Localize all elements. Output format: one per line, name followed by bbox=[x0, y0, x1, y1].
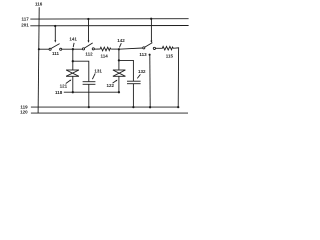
svg-text:114: 114 bbox=[100, 54, 108, 59]
wire split to surge absorber 122 bbox=[118, 60, 120, 70]
leader line 131 bbox=[92, 73, 95, 79]
net 118 line bbox=[64, 91, 119, 93]
svg-text:141: 141 bbox=[69, 36, 77, 41]
svg-text:120: 120 bbox=[20, 110, 28, 115]
junction 122-118 bbox=[118, 91, 120, 93]
control arrow from 117 to switch 113 bbox=[150, 19, 152, 41]
junction 121-118 bbox=[72, 91, 74, 93]
wire switch111 to node 141 bbox=[62, 48, 83, 50]
wire cap132 bottom to 119 bbox=[132, 84, 134, 107]
wire switch112 to resistor 114 bbox=[94, 48, 98, 50]
leader line 121 bbox=[66, 80, 71, 83]
resistor 114 bbox=[98, 47, 112, 51]
junction drop-119 bbox=[149, 106, 151, 108]
bus line 201 bbox=[30, 25, 188, 27]
junction on 201 for switch 111 arrow bbox=[54, 25, 56, 27]
junction cap132-119 bbox=[132, 106, 134, 108]
wire resistor115 to right drop bbox=[175, 48, 179, 107]
leader line 142 bbox=[119, 43, 121, 47]
wire node142 to switch 113 bbox=[119, 48, 143, 49]
svg-text:142: 142 bbox=[117, 38, 125, 43]
svg-text:112: 112 bbox=[85, 51, 93, 56]
svg-text:131: 131 bbox=[94, 68, 102, 73]
svg-text:121: 121 bbox=[60, 83, 68, 88]
resistor 115 bbox=[162, 46, 175, 50]
junction on 117 for switch 113 arrow bbox=[150, 18, 152, 20]
svg-text:117: 117 bbox=[22, 17, 30, 22]
junction on 117 for switch 112 arrow bbox=[87, 18, 89, 20]
wire switch row left bbox=[39, 48, 49, 50]
wire 116 vertical bbox=[38, 7, 39, 113]
svg-text:116: 116 bbox=[35, 2, 43, 7]
wire split to surge absorber 121 bbox=[72, 61, 74, 70]
svg-text:115: 115 bbox=[166, 54, 174, 59]
wire 122 bottom to node 118 end bbox=[118, 76, 120, 92]
switch 112 bbox=[82, 43, 94, 50]
svg-text:201: 201 bbox=[21, 22, 29, 27]
wire 121 bottom to node 118 bbox=[72, 76, 74, 92]
leader line 132 bbox=[137, 74, 140, 78]
node 142 junction bbox=[118, 48, 120, 50]
bus line 119 bbox=[31, 106, 179, 108]
svg-text:111: 111 bbox=[52, 51, 60, 56]
bus line 117 bbox=[30, 18, 188, 20]
surge absorber 121 bbox=[66, 70, 79, 76]
wire node141 down bbox=[72, 49, 74, 61]
wire cap131 bottom to 119 bbox=[88, 84, 90, 107]
wire resistor114 to node 142 bbox=[112, 48, 119, 50]
junction cap131-119 bbox=[88, 106, 90, 108]
switch 113 bbox=[143, 43, 156, 50]
wire node142 down bbox=[118, 49, 120, 60]
switch 111 bbox=[49, 44, 62, 51]
control arrow from 117 to switch 112 bbox=[88, 19, 90, 41]
wire branch2 split to cap 132 bbox=[119, 60, 133, 81]
svg-text:113: 113 bbox=[139, 52, 147, 57]
junction row-116 bbox=[38, 48, 40, 50]
wire branch1 split to cap 131 bbox=[73, 61, 89, 81]
capacitor 132 bbox=[127, 81, 141, 84]
leader line 141 bbox=[72, 43, 75, 47]
svg-text:132: 132 bbox=[138, 69, 146, 74]
node 141 junction bbox=[72, 48, 74, 50]
junction branch2 split bbox=[118, 59, 120, 61]
svg-text:122: 122 bbox=[107, 83, 115, 88]
junction branch1 split bbox=[72, 60, 74, 62]
surge absorber 122 bbox=[113, 70, 126, 76]
svg-text:118: 118 bbox=[55, 90, 63, 95]
wire drop under switch 113 to 119 bbox=[149, 55, 151, 107]
junction right drop on 119 bbox=[177, 106, 179, 108]
wire switch113 to resistor 115 bbox=[156, 47, 162, 49]
blob top of drop bbox=[149, 54, 151, 56]
capacitor 131 bbox=[83, 82, 96, 85]
control arrow from 201 to switch 111 bbox=[54, 26, 56, 41]
leader line 122 bbox=[113, 81, 117, 84]
bus line 120 bbox=[31, 112, 188, 114]
